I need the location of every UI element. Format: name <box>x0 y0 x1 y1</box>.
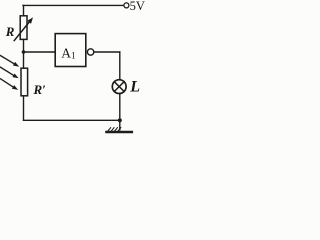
svg-text:R: R <box>5 24 15 39</box>
lamp L symbol <box>112 80 126 94</box>
node junction ground <box>118 118 122 122</box>
op-amp U1 box A1 <box>55 34 86 67</box>
wire amplifier output <box>94 51 120 53</box>
wire left middle <box>23 39 25 68</box>
wire right upper <box>119 52 121 80</box>
wire amplifier input <box>24 51 56 53</box>
wire top rail <box>23 4 124 6</box>
ground hatching <box>108 128 121 131</box>
inverter bubble output <box>87 49 93 55</box>
ground bar <box>107 131 132 134</box>
wire right lower <box>119 94 121 121</box>
photoresistor R' body <box>21 68 28 96</box>
resistor R wiper arrow <box>14 22 29 40</box>
wire bottom rail <box>24 119 120 121</box>
svg-text:L: L <box>129 78 140 95</box>
light arrow 1 <box>1 56 15 64</box>
ground stem <box>119 120 121 130</box>
wire left lower <box>23 96 25 121</box>
svg-text:R′: R′ <box>33 82 47 97</box>
resistor R body <box>20 16 27 40</box>
light arrow 2 <box>1 67 14 75</box>
svg-text:5V: 5V <box>130 0 145 13</box>
node junction input <box>22 50 26 54</box>
light arrow 3 <box>1 79 14 87</box>
terminal 5V <box>124 3 129 8</box>
wire left upper <box>23 5 25 16</box>
